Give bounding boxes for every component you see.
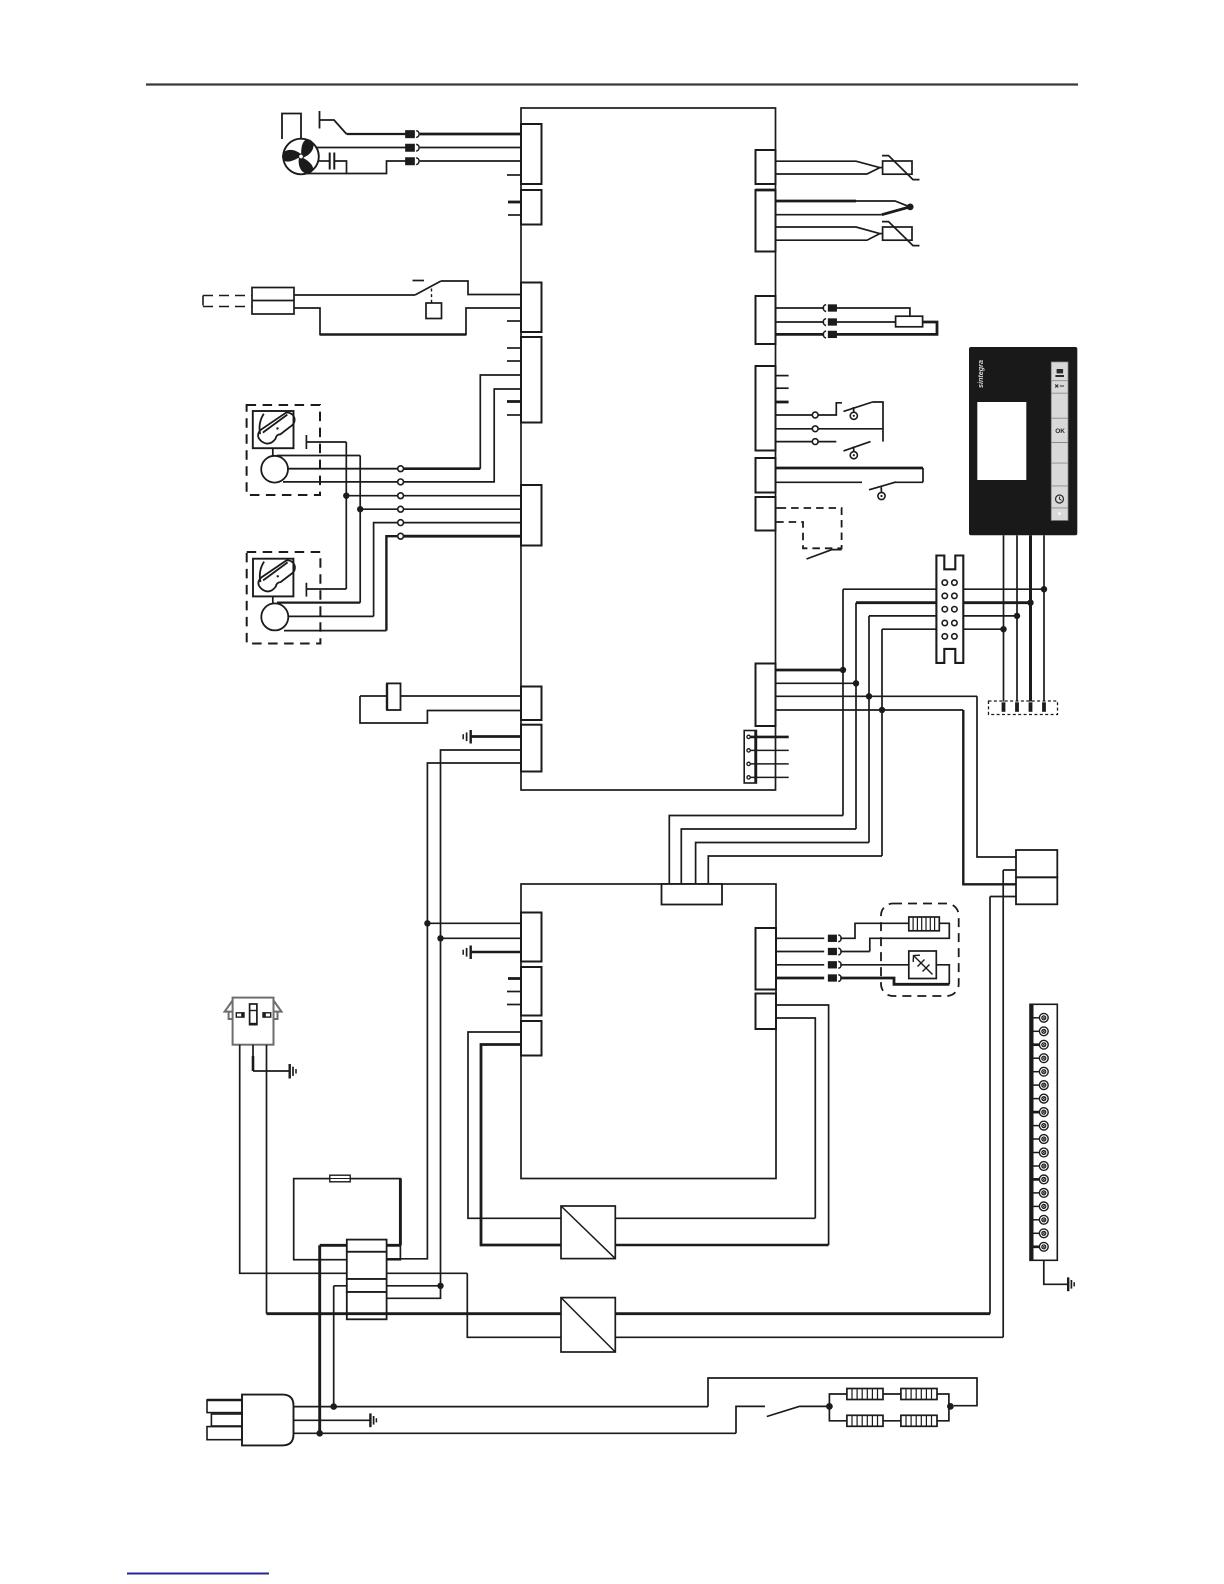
wire: remote lead 1 [1003, 535, 1005, 701]
wire: X65-2 to filter riser [776, 1018, 815, 1218]
safety switch 2 screw [850, 446, 857, 458]
wire: X64-3 [776, 964, 825, 966]
wire: Y2 coil + [288, 615, 373, 617]
limit thermostat body [776, 468, 924, 482]
pin stub X23-2 [776, 387, 789, 389]
wire: X64-4 thick [776, 977, 825, 980]
wire: X23-5 [776, 428, 813, 430]
wire: switch1 out [873, 402, 884, 442]
remote control unit [969, 347, 1077, 535]
bullet connector fan-1 [406, 131, 419, 138]
junction dot mains live [330, 1403, 337, 1410]
wire: m1 to resistor [840, 923, 909, 938]
wire: X28-1 [750, 736, 788, 739]
wire: X50 earth [1044, 1260, 1068, 1284]
pin stub X25-2 [776, 521, 780, 523]
wire: S1 out [800, 1405, 829, 1407]
connector X61 on A2 left edge [521, 913, 542, 962]
wire: net2 strip row [856, 601, 1031, 604]
remote terminal box (dashed) [989, 701, 1058, 715]
wire: fan common [316, 147, 406, 149]
connector X62 on A2 left edge [521, 967, 542, 1016]
junction circle row5 [398, 520, 404, 526]
temperature probe B1 outline [776, 161, 880, 174]
connector X12 (air pressure switch) on A1 left edge [521, 283, 542, 333]
wire: X2 earth lead [253, 1045, 290, 1071]
bullet connector p2 [823, 319, 836, 326]
safety switch 1 lever [844, 402, 873, 411]
junction dot T-bus [343, 493, 349, 499]
wire: bus net1 riser [842, 589, 844, 815]
wire: net2 to A2 [681, 829, 856, 884]
wire: switch output to X12-1 [441, 281, 521, 295]
terminal strip X50 [1030, 1004, 1057, 1260]
ground symbol A2 [463, 946, 471, 960]
wire: row2 to X13-4 [404, 389, 522, 482]
ground symbol X50 [1068, 1277, 1074, 1291]
connector X13 (gas valve control) on A1 left edge [521, 337, 542, 423]
X40 screw holes [942, 580, 957, 639]
safety switch 1 screw [850, 407, 857, 419]
wire: B2 tip [880, 233, 883, 235]
wire: bus net1 pin [776, 669, 844, 672]
fuse F2 on T1 [330, 1175, 350, 1182]
wire: supply a to A2 [441, 937, 522, 939]
connector X2 (boiler plug) [225, 998, 282, 1045]
junction dot net1 remote [1041, 586, 1047, 592]
terminal circle s3 [812, 439, 818, 445]
wire: X22-2 [776, 321, 825, 323]
wire: net1 strip row [843, 588, 1044, 590]
pressure switch diaphragm box [426, 303, 442, 319]
junction dot supply a low [437, 1283, 443, 1289]
mains plug prong 1 top edge [207, 1399, 242, 1402]
wire: X2 earth lead thick part [252, 1056, 255, 1071]
thermal cutout on fan [320, 111, 347, 134]
gas valve Y1 symbol [258, 413, 295, 444]
svg-text:sintegra: sintegra [976, 360, 985, 388]
NTC B2 strike [882, 222, 920, 246]
wire: A1 ground [471, 735, 521, 738]
wire: s2 common [818, 428, 883, 430]
terminal circle s1 [812, 412, 818, 418]
wire: fan bottom tap [305, 173, 347, 175]
bullet connector p3 [823, 331, 836, 338]
connector X24 on A1 right edge [756, 458, 776, 493]
gas valve Y1 (dashed enclosure) [247, 405, 320, 495]
fan speed connector lower [1016, 877, 1057, 904]
wire: row5 riser [374, 523, 398, 617]
NTC B1 strike [882, 156, 920, 180]
pin stub X62-3 [507, 1004, 521, 1006]
pin stub X11-1 [508, 201, 521, 204]
ground symbol mains [370, 1413, 376, 1427]
pin stub X13-1 [507, 347, 521, 349]
remote button strip [1051, 362, 1068, 520]
limit thermostat lever [869, 482, 896, 490]
wire: Y1 coil + to junction circle [288, 468, 398, 470]
junction circle row4 [398, 506, 404, 512]
wire: Y2 coil aux [277, 601, 360, 603]
connector X22 on A1 right edge [756, 296, 776, 344]
wire: remote lead 4 [1043, 535, 1045, 701]
wire: resistor return [870, 923, 950, 951]
resistor R4 [901, 1415, 937, 1426]
remote icon dot [1058, 512, 1061, 515]
wire: bus net4 riser [881, 629, 883, 856]
wire: row3 run [404, 495, 522, 497]
wire: X64-1 [776, 937, 825, 939]
fan speed connector upper [1016, 850, 1057, 877]
gas valve Y2 symbol [258, 560, 295, 591]
wire: T-bus vertical [345, 442, 347, 589]
wire: capacitor to connector (s-bend) [334, 161, 406, 174]
wire: X2 line lead [240, 1045, 468, 1274]
junction dot net4 [879, 707, 885, 713]
connector X11 on A1 left edge [521, 190, 542, 225]
wire: supply a down to X30 [387, 938, 441, 1298]
wire: net3 to A2 [696, 843, 869, 885]
junction circle row2 [398, 479, 404, 485]
limit thermostat bar [776, 467, 924, 470]
junction circle row3 [398, 493, 404, 499]
wire: A1 supply a [441, 750, 522, 938]
connector X16 (power) on A1 left edge [521, 725, 542, 772]
wire: A2 ground [471, 951, 521, 954]
interference filter Z1 [561, 1206, 615, 1259]
pin stub X23-1 [776, 375, 789, 377]
wire: p3 loop to pump [836, 322, 937, 334]
connector stack X30 [347, 1240, 387, 1320]
anticipator switch S1 [767, 1406, 800, 1416]
connector X60 on A2 top edge [662, 884, 723, 905]
junction dot supply b [424, 920, 430, 926]
fuse F1 [387, 683, 401, 710]
junction dot supply a [437, 935, 443, 941]
wire: s3 to switch [818, 441, 836, 443]
wire: mains neutral riser [990, 897, 1016, 1314]
wire: row1 riser [480, 375, 521, 469]
pin stub X10-4 [507, 174, 521, 176]
room thermostat contact [807, 550, 842, 559]
wire: p1 to pump [836, 308, 910, 316]
terminal circle s2 [812, 426, 818, 432]
wire: A1 supply b [427, 763, 521, 923]
pressure switch actuator link (dashed) [431, 289, 433, 304]
wire: pressure switch return thick run [320, 333, 466, 336]
ground symbol A1 [463, 730, 471, 744]
wire: B1 tip [880, 167, 883, 169]
wire: pressure switch NO line [294, 294, 415, 296]
remote terminal pins [1002, 702, 1046, 712]
connector X64 on A2 right edge [756, 928, 777, 990]
junction dot net3 [866, 693, 872, 699]
mains plug prong 3 [207, 1427, 242, 1440]
X50 screws and stubs [1033, 1013, 1048, 1251]
gas valve Y2 terminal T [306, 583, 346, 597]
connector X14 (gas valve coils) on A1 left edge [521, 485, 542, 546]
connector X63 on A2 left edge [521, 1021, 542, 1056]
connector X15 (jumper) on A1 left edge [521, 687, 542, 721]
pin stub X62-2 [507, 991, 521, 993]
wire: X23-4 [776, 414, 813, 416]
wire: X63-1 to filter [468, 1032, 561, 1218]
wire: row4 to X14-2 [360, 508, 398, 510]
junction circle row1 [398, 466, 404, 472]
wire: mains earth [294, 1419, 371, 1421]
wire: bus net2 pin [776, 682, 857, 684]
connector X21 on A1 right edge [756, 190, 776, 252]
gas valve Y1 coil [261, 456, 288, 483]
junction dot aux-bus [357, 506, 363, 512]
terminal strip X40 [936, 556, 963, 663]
X28 pin circles [747, 735, 750, 779]
wire: modulator return [936, 965, 949, 985]
wire: row6 riser [386, 536, 397, 630]
wire: net1 to A2 [669, 816, 843, 885]
junction dot net1 [840, 667, 846, 673]
wire: X64-2 [776, 951, 825, 953]
wire: s1 to switch [818, 403, 842, 415]
resistor R3 [847, 1415, 883, 1426]
wire: filter1 out upper [615, 1217, 815, 1219]
connector X65 on A2 right edge [756, 994, 777, 1030]
wire: fan-3 to X10 [420, 160, 521, 162]
gas valve Y1 terminal T [306, 435, 346, 449]
NTC sensor B1 [883, 161, 912, 174]
X2 side pin R [263, 1013, 271, 1017]
ground symbol X2 [290, 1064, 296, 1079]
wire: mains neutral bottom run (thick) [267, 1312, 562, 1315]
air pressure switch connector [252, 288, 294, 315]
fan blades [282, 138, 316, 177]
wire: p2 to pump [836, 321, 896, 323]
capacitor C1 [319, 153, 335, 170]
wire: X65-1 to filter riser [776, 1005, 829, 1245]
pin stub X13-2 [507, 360, 521, 362]
capillary tube (dashed) to pressure switch [203, 296, 252, 307]
wire: X28-4 [750, 776, 788, 778]
connector X10 (fan) on A1 left edge [521, 124, 542, 184]
pin stub X25-1 [776, 507, 780, 509]
electrode rod [882, 207, 910, 215]
wire: row3 to X14-1 [346, 495, 397, 497]
bullet connector fan-3 [406, 158, 419, 165]
modulation resistor [909, 917, 940, 931]
wire: fan-2 to X10 [420, 147, 521, 149]
bullet connector m4 [829, 975, 842, 982]
gas valve Y2 coil [261, 603, 288, 630]
wire: filter2 out (thick) [615, 1312, 990, 1315]
wire: mains neutral [294, 1432, 737, 1434]
wire: row5 run [404, 522, 522, 524]
room thermostat (dashed, optional) [779, 508, 842, 548]
pin stub X12-3 [507, 320, 521, 322]
fan motor M1 [283, 139, 319, 175]
interference filter Z2 [561, 1298, 615, 1352]
temperature probe B2 outline [776, 227, 880, 240]
wire: X30 pin3 to plug line [334, 1286, 347, 1407]
wire: R network bottom branch [829, 1406, 949, 1420]
wire: X22-1 [776, 307, 825, 309]
electrode tip dot [907, 204, 914, 211]
pin stub X62-1 [508, 977, 521, 980]
mains plug prong 2 [211, 1414, 242, 1426]
wire: jumper upper leg [360, 695, 521, 697]
wire: electrode feed [776, 200, 857, 203]
fan housing [282, 114, 301, 140]
wire: filter2 out live [615, 1336, 1003, 1338]
wire: bus net3 pin [776, 695, 978, 697]
wire: X2 neutral lead [266, 1045, 268, 1314]
gas valve Y1 coil stem [272, 448, 274, 456]
remote icon 1 [1055, 369, 1064, 377]
pressure switch contact bar [413, 280, 425, 282]
wire: m4 loop [840, 978, 949, 984]
wire: Y2 coil - [284, 630, 386, 632]
page bottom-left rule [127, 1573, 269, 1575]
wire: aux bus vertical [359, 456, 361, 603]
wire: T1 feed thick [320, 1179, 401, 1434]
wire: X63-2 to filter (thick) [481, 1045, 561, 1246]
safety switch 2 lever [844, 442, 871, 451]
remote icon 2 [1055, 385, 1064, 388]
gas valve Y2 (dashed enclosure) [247, 552, 321, 644]
gas valve Y2 coil stem [272, 596, 274, 603]
limit thermostat screw [878, 487, 885, 499]
wire: live bypass loop [708, 1378, 977, 1407]
wire: row6 run [404, 535, 522, 538]
wire: net4 to A2 [708, 856, 882, 884]
pin stub X11-2 [508, 214, 521, 216]
pressure switch lever [415, 281, 441, 295]
wire: fan-1 to X10 [420, 133, 521, 136]
modulation unit (dashed) [881, 904, 959, 997]
bullet connector p1 [823, 305, 836, 312]
wire: supply b to A2 [427, 922, 521, 924]
wire: mains live bottom run [467, 1273, 561, 1337]
pin stub X23-3 [776, 401, 789, 404]
main control board A1 [521, 108, 776, 790]
wire: mains live [294, 1406, 709, 1408]
page top rule [146, 83, 1078, 85]
wire: neutral to switch [736, 1406, 765, 1433]
resistor R1 [847, 1389, 883, 1400]
wire: mains live riser [1003, 870, 1016, 1337]
wire: X23-6 [776, 441, 813, 443]
wire: X28-3 [750, 763, 788, 765]
wire: m3 to modulator [840, 964, 909, 966]
junction dot net2 remote [1027, 600, 1033, 606]
svg-text:OK: OK [1055, 428, 1065, 435]
wire: bus net3 riser [868, 616, 870, 843]
bullet connector fan-2 [406, 144, 419, 151]
pin stub X13-6 [507, 414, 521, 416]
fuse F1 left edge [386, 683, 388, 710]
wire: row4 run [404, 508, 522, 510]
connector X27 (bus) on A1 right edge [756, 664, 776, 727]
wire: Y1 coil aux [277, 455, 360, 457]
remote display window [977, 402, 1026, 480]
pump component [896, 316, 923, 327]
connector X23 on A1 right edge [756, 366, 776, 451]
wire: net3 drop to fan box [977, 696, 1016, 857]
junction dot mains neutral [316, 1430, 323, 1437]
wire: Y1 coil - to junction circle [283, 481, 398, 483]
bullet connector m3 [829, 961, 842, 968]
mains plug prong 1 [207, 1400, 242, 1413]
wire: remote lead 2 [1016, 535, 1018, 701]
junction dot net4 remote [1000, 626, 1006, 632]
X2 side pin L [236, 1013, 244, 1017]
wire: net4 strip row [882, 628, 1004, 630]
gas valve Y2 body [253, 559, 293, 597]
wire: pressure switch return to X12-2 [294, 308, 521, 335]
wire: bus net4 pin [776, 709, 964, 711]
mains plug X40P body [242, 1395, 294, 1446]
transformer T1 [294, 1179, 401, 1260]
junction dot net2 [853, 680, 859, 686]
control board A2 (lower) [521, 884, 776, 1179]
wire: row1 to X13-3 [404, 467, 481, 470]
wire: jumper loop [360, 696, 521, 723]
wire: R network top branch [829, 1394, 949, 1406]
wire: remote lead 3 [1029, 535, 1032, 701]
wire: X22-3 thick [776, 333, 825, 336]
NTC sensor B2 [883, 227, 912, 240]
junction dot R network left [826, 1403, 833, 1410]
gas valve Y1 body [253, 411, 294, 448]
wire: fan speed line to connector [347, 133, 407, 135]
resistor R2 [901, 1389, 937, 1400]
remote icon clock [1056, 495, 1064, 503]
wire: bus net2 riser [855, 603, 857, 829]
ionization electrode outline [776, 201, 911, 215]
wire: supply b down to X30 [387, 923, 428, 1259]
junction circle row6 [398, 533, 404, 539]
bullet connector m1 [829, 935, 842, 942]
modulator coil [909, 951, 937, 979]
X2 center pin [250, 1004, 257, 1025]
connector X20 on A1 right edge [756, 150, 776, 184]
junction dot net3 remote [1014, 613, 1020, 619]
junction dot R network right [947, 1403, 954, 1410]
wire: net4 drop to fan box [963, 710, 1016, 884]
flat connector X28 [744, 731, 756, 784]
wire: m2 link [840, 951, 870, 953]
bullet connector m2 [829, 948, 842, 955]
wire: net3 strip row [869, 615, 1017, 617]
wire: X28-2 [750, 749, 788, 751]
pin stub X13-5 [507, 400, 521, 403]
wire: filter1 out lower (thick) [615, 1244, 828, 1247]
connector X25 on A1 right edge [756, 497, 776, 531]
remote button dividers [1051, 381, 1068, 508]
